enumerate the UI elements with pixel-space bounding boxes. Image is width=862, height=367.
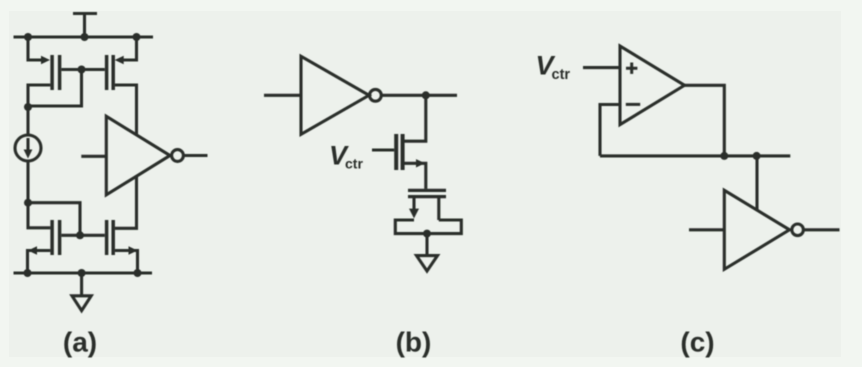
transistor M4 NMOS right <box>107 220 138 273</box>
wire Vctr to M5 gate <box>372 148 394 151</box>
wire PMOS gate bus <box>61 68 104 71</box>
wire M1 drain to node A <box>28 85 50 107</box>
power VDD symbol circuit a <box>73 14 97 38</box>
current source I1 <box>15 135 41 161</box>
ground rail <box>14 271 153 274</box>
transistor M5 NMOS <box>396 134 426 189</box>
ground symbol circuit b <box>417 234 438 271</box>
wire node B to M3 drain <box>28 203 50 228</box>
junction dot inverter supply tap <box>753 152 761 160</box>
wire current source I1 to node B <box>26 161 29 203</box>
inverter U2 <box>301 56 381 134</box>
wire U1 input <box>81 155 106 158</box>
node A junction dot <box>24 103 32 111</box>
transistor M1 PMOS left <box>28 37 60 90</box>
junction dot U3 output node <box>720 152 728 160</box>
wire output node to M5 drain <box>404 95 426 141</box>
junction dot U2 output node <box>422 91 430 99</box>
wire U4 input <box>689 228 724 231</box>
wire M4 drain to inverter U1 bottom supply <box>115 176 137 228</box>
inverter U4 <box>724 190 803 269</box>
junction dot VDD rail right <box>133 33 141 41</box>
wire PMOS gate node to node A <box>28 70 82 107</box>
wire node A to current source I1 <box>26 107 29 135</box>
wire U3 feedback minus input <box>600 105 620 156</box>
wire node to inverter U4 supply <box>755 156 758 210</box>
junction dot ground rail center <box>78 269 86 277</box>
wire U2 input <box>264 94 301 97</box>
junction dot VDD rail center <box>81 33 89 41</box>
junction dot NMOS gate node <box>76 231 84 239</box>
wire Vctr to U3 plus input <box>583 66 620 69</box>
svg-text:(a): (a) <box>63 327 97 358</box>
wire M2 drain to inverter U1 top supply <box>115 85 137 135</box>
inverter U1 <box>106 116 183 195</box>
label Vctr circuit b <box>329 141 363 172</box>
transistor M2 PMOS right <box>107 37 137 90</box>
wire node B to NMOS gate node <box>28 203 80 236</box>
wire U3 output <box>685 85 725 156</box>
op-amp U3 <box>620 46 685 125</box>
transistor M3 NMOS left <box>28 220 60 273</box>
svg-text:ctr: ctr <box>552 67 571 83</box>
wire U1 output <box>183 154 207 157</box>
svg-text:(c): (c) <box>680 327 714 358</box>
svg-text:(b): (b) <box>396 327 432 358</box>
wire VDD rail <box>14 35 154 38</box>
junction dot PMOS gate node <box>78 66 86 74</box>
wire U4 output <box>803 228 839 231</box>
junction dot ground rail right <box>134 269 142 277</box>
svg-text:ctr: ctr <box>345 156 363 172</box>
wire NMOS gate bus <box>61 234 104 237</box>
junction dot C1 bottom node <box>423 230 431 238</box>
ground symbol circuit a <box>72 273 91 311</box>
wire output node rail <box>600 154 790 157</box>
junction dot ground rail left <box>24 269 32 277</box>
MOS capacitor C1 <box>395 190 461 233</box>
node B junction dot <box>24 199 32 207</box>
junction dot VDD rail left <box>24 33 32 41</box>
wire U2 output <box>381 94 457 97</box>
label Vctr circuit c <box>536 51 571 84</box>
